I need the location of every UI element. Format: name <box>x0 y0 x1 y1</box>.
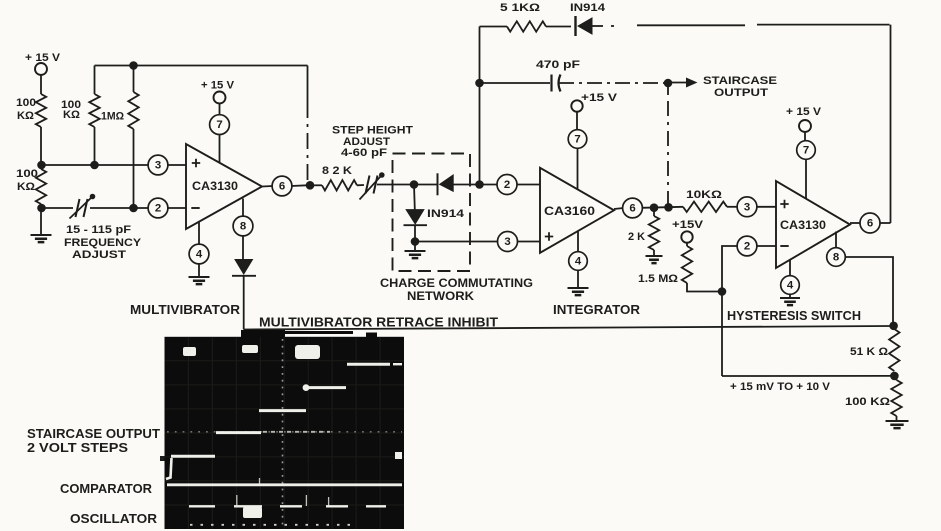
svg-text:8: 8 <box>240 221 246 233</box>
svg-text:6: 6 <box>629 203 635 215</box>
power +15V terminal (1.5M bias) <box>672 219 703 243</box>
op-amp U1 CA3130 multivibrator <box>186 144 262 229</box>
resistor R8 10K <box>683 189 738 212</box>
svg-text:CHARGE COMMUTATING: CHARGE COMMUTATING <box>380 277 533 290</box>
svg-text:3: 3 <box>744 201 750 213</box>
svg-text:4: 4 <box>196 249 203 261</box>
resistor R7 2K <box>628 208 659 256</box>
pin 4 of U2 <box>569 231 588 288</box>
capacitor C2 variable step height <box>360 172 415 199</box>
svg-text:IN914: IN914 <box>427 208 464 220</box>
junction (1M bottom on pin2 line) <box>129 204 138 213</box>
junction (2K tap) <box>650 203 659 212</box>
svg-text:4-60 pF: 4-60 pF <box>341 147 388 159</box>
pin 2 of U1 <box>148 198 186 218</box>
junction (1M top) <box>129 61 138 70</box>
label HYSTERESIS SWITCH <box>727 309 861 323</box>
pin 8 of U1 <box>233 199 253 260</box>
svg-text:+15 V: +15 V <box>581 92 617 104</box>
svg-text:KΩ: KΩ <box>17 181 36 193</box>
svg-text:100: 100 <box>16 97 36 109</box>
power +15V terminal (multivibrator left) <box>25 52 60 94</box>
svg-text:2 K: 2 K <box>628 231 645 243</box>
svg-text:5 1KΩ: 5 1KΩ <box>500 2 541 14</box>
pin 2 of U2 <box>480 175 541 195</box>
svg-text:3: 3 <box>155 160 161 172</box>
svg-text:MULTIVIBRATOR RETRACE INHIBIT: MULTIVIBRATOR RETRACE INHIBIT <box>259 316 498 330</box>
node H junction (divider top) <box>889 322 898 331</box>
ground (U2 pin 4) <box>568 288 589 295</box>
svg-text:2: 2 <box>504 179 510 191</box>
pin 3 of U1 <box>148 155 186 175</box>
svg-text:6: 6 <box>867 218 873 230</box>
svg-text:7: 7 <box>803 145 809 157</box>
svg-text:STAIRCASE OUTPUT: STAIRCASE OUTPUT <box>27 426 160 441</box>
capacitor C3 470pF <box>480 59 581 92</box>
label frequency adjust <box>64 224 141 261</box>
svg-text:6: 6 <box>279 181 285 193</box>
svg-text:4: 4 <box>787 280 794 292</box>
staircase output arrow <box>668 75 777 99</box>
svg-text:1MΩ: 1MΩ <box>101 111 124 123</box>
svg-text:OUTPUT: OUTPUT <box>714 87 769 99</box>
op-amp U2 CA3160 integrator <box>540 168 614 253</box>
svg-text:MULTIVIBRATOR: MULTIVIBRATOR <box>130 303 240 317</box>
ground (U1 pin 4) <box>189 277 210 284</box>
svg-text:7: 7 <box>216 119 222 131</box>
label charge commutating network <box>380 277 533 303</box>
wire output feedback up <box>890 25 892 223</box>
diode D3 IN914 vertical <box>404 185 465 242</box>
ground (divider bottom) <box>886 421 909 428</box>
junction (staircase line tap) <box>664 203 673 212</box>
svg-text:10KΩ: 10KΩ <box>686 189 723 201</box>
diode D2 IN914 horizontal <box>414 173 478 195</box>
resistor R10 51K <box>850 329 900 371</box>
node I junction (divider tap) <box>890 372 899 381</box>
svg-text:CA3160: CA3160 <box>544 206 595 218</box>
svg-text:2: 2 <box>744 241 750 253</box>
svg-text:+ 15 V: + 15 V <box>786 106 821 118</box>
wire pin2 to divider tap <box>722 246 738 292</box>
diode D1 (pin 8 retrace) <box>232 260 256 330</box>
wire node B to pin 2 <box>41 207 149 209</box>
pin 6 output of U2 <box>614 198 683 218</box>
svg-text:4: 4 <box>575 256 582 268</box>
node output U1 junction <box>306 181 315 190</box>
wire +15mV feedback <box>722 375 891 377</box>
svg-text:+ 15 V: + 15 V <box>201 80 234 92</box>
wire top feedback to right (dashed scan) <box>592 25 890 26</box>
node E junction (feedback tap) <box>475 180 484 189</box>
node B junction <box>37 204 46 213</box>
wire feedback vertical x479 <box>479 27 481 185</box>
svg-text:IN914: IN914 <box>570 2 605 14</box>
svg-text:+ 15 mV TO + 10 V: + 15 mV TO + 10 V <box>730 381 830 393</box>
svg-text:STAIRCASE: STAIRCASE <box>703 75 777 87</box>
node C junction (box input) <box>410 180 419 189</box>
power +15V terminal (U2 pin7) <box>571 92 617 131</box>
pin 4 of U1 <box>189 222 209 277</box>
power +15V terminal (U1 pin7) <box>201 80 234 116</box>
svg-text:7: 7 <box>574 134 580 146</box>
svg-text:CA3130: CA3130 <box>192 181 238 193</box>
pin 2 of U3 <box>737 236 776 256</box>
svg-text:2 VOLT STEPS: 2 VOLT STEPS <box>27 440 128 455</box>
label MULTIVIBRATOR <box>130 303 240 317</box>
wire 470pF to staircase node (dash-dot) <box>559 82 666 84</box>
capacitor C1 variable 15-115pF <box>70 194 96 219</box>
pin 4 of U3 <box>781 260 800 299</box>
resistor R11 100K (divider bottom) <box>845 376 902 421</box>
pin 8 of U3 <box>827 232 846 267</box>
resistor R2 100K (lower left) <box>16 165 46 208</box>
svg-text:KΩ: KΩ <box>17 110 35 122</box>
svg-text:OSCILLATOR: OSCILLATOR <box>70 511 157 526</box>
wire multivibrator retrace inhibit <box>244 326 894 330</box>
resistor R4 1M (feedback) <box>101 66 139 209</box>
svg-text:1.5 MΩ: 1.5 MΩ <box>638 273 679 285</box>
wire top feedback horizontal <box>95 65 308 67</box>
pin 7 of U2 <box>568 130 587 189</box>
pin 7 of U1 <box>210 115 230 163</box>
resistor R3 100K (feedback) <box>61 66 100 166</box>
pin 6 output of U1 <box>262 176 307 196</box>
svg-text:FREQUENCY: FREQUENCY <box>64 237 141 249</box>
label COMPARATOR <box>60 481 152 496</box>
svg-text:2: 2 <box>155 203 161 215</box>
pin 3 of U3 <box>737 197 776 217</box>
svg-text:15 - 115 pF: 15 - 115 pF <box>66 224 132 236</box>
svg-text:INTEGRATOR: INTEGRATOR <box>553 303 640 317</box>
svg-text:470 pF: 470 pF <box>536 59 581 71</box>
power +15V terminal (U3 pin7) <box>786 106 821 142</box>
ground (left divider) <box>31 208 52 242</box>
node F staircase junction <box>664 79 673 88</box>
svg-text:STEP HEIGHT: STEP HEIGHT <box>332 125 414 137</box>
ground (U3 pin 4) <box>780 298 800 305</box>
ground (2K) <box>646 256 663 263</box>
wire pin 8 to divider top <box>845 257 893 324</box>
wire R1 to node A <box>40 127 42 165</box>
label OSCILLATOR <box>70 511 157 526</box>
svg-text:CA3130: CA3130 <box>780 220 826 232</box>
ground (inside box) <box>405 242 426 259</box>
svg-text:51 K Ω: 51 K Ω <box>850 346 889 358</box>
label +15mV <box>730 381 830 393</box>
svg-text:+ 15 V: + 15 V <box>25 52 60 64</box>
resistor R5 8.2K <box>310 165 364 191</box>
resistor R6 5.1K <box>480 2 572 32</box>
pin 7 of U3 <box>797 141 816 199</box>
label step height adjust <box>332 125 414 160</box>
dashed box charge commutating network <box>393 154 471 272</box>
svg-text:COMPARATOR: COMPARATOR <box>60 481 152 496</box>
junction (470pF tap) <box>475 79 484 88</box>
svg-text:HYSTERESIS SWITCH: HYSTERESIS SWITCH <box>727 309 861 323</box>
label STAIRCASE OUTPUT 2 VOLT STEPS <box>27 426 160 455</box>
svg-text:ADJUST: ADJUST <box>72 249 127 261</box>
svg-text:+15V: +15V <box>672 219 703 231</box>
wire node A to pin 3 <box>41 164 149 166</box>
wire staircase node down (dash-dot) <box>667 83 669 207</box>
svg-text:8: 8 <box>833 252 839 264</box>
resistor R9 1.5M <box>638 243 722 292</box>
node A junction <box>37 161 46 170</box>
svg-text:3: 3 <box>504 236 510 248</box>
svg-text:100 KΩ: 100 KΩ <box>845 396 891 408</box>
diode D4 IN914 top <box>570 2 605 36</box>
node D junction (diode bottom) <box>411 237 420 246</box>
pin 6 output of U3 <box>850 213 891 233</box>
resistor R1 100K (upper left) <box>16 94 46 127</box>
wire top feedback vertical <box>307 66 309 184</box>
op-amp U3 CA3130 hysteresis switch <box>776 181 850 268</box>
label INTEGRATOR <box>553 303 640 317</box>
svg-text:KΩ: KΩ <box>63 109 81 121</box>
svg-text:NETWORK: NETWORK <box>407 290 475 303</box>
svg-text:100: 100 <box>16 168 38 180</box>
junction (R3 bottom on pin3 line) <box>90 161 99 170</box>
oscilloscope photo <box>160 330 404 529</box>
wire tap down to +15mV line <box>721 292 723 377</box>
label MULTIVIBRATOR RETRACE INHIBIT <box>259 316 498 330</box>
pin 3 of U2 <box>414 232 540 252</box>
svg-text:8 2 K: 8 2 K <box>322 165 352 177</box>
node G junction (pin2 tap) <box>718 287 727 296</box>
